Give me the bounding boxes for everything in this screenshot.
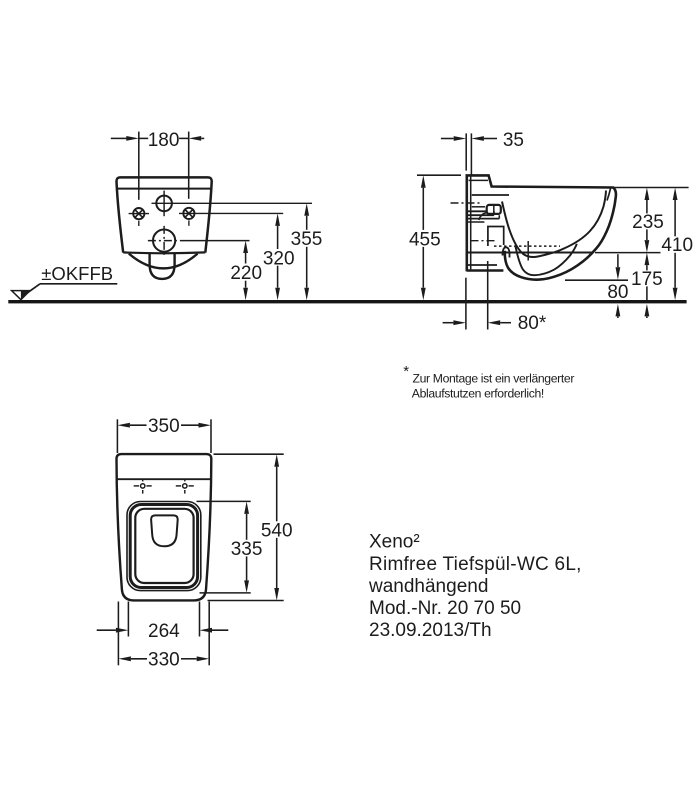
inlet axis dashdot bbox=[451, 202, 482, 204]
interior bottom line bbox=[468, 264, 498, 266]
OKFFB diagonal bbox=[22, 284, 40, 297]
outlet axis dashdot bbox=[471, 240, 498, 242]
inlet hole bbox=[156, 196, 172, 212]
dim 80 below-floor arrow bbox=[616, 304, 621, 317]
dim 264 line bbox=[97, 629, 116, 631]
dim 350 extension left bbox=[116, 419, 118, 453]
dim 355 vertical bbox=[304, 203, 309, 216]
dim 350 line bbox=[117, 423, 129, 428]
svg-text:264: 264 bbox=[148, 621, 180, 642]
dim 264 extension right bbox=[199, 602, 201, 637]
bowl skirt arc bbox=[129, 254, 198, 269]
dim 330 line bbox=[118, 656, 130, 661]
svg-text:23.09.2013/Th: 23.09.2013/Th bbox=[369, 620, 492, 641]
plan band line bbox=[117, 478, 211, 480]
plan body outline bbox=[117, 454, 212, 600]
seat inner thick outline bbox=[130, 505, 197, 588]
svg-text:80: 80 bbox=[607, 282, 628, 303]
dim 455 top extension bbox=[417, 174, 461, 176]
outlet pipe U front bbox=[150, 253, 175, 279]
dim 175 below-floor arrow bbox=[645, 304, 650, 317]
front body bottom edge bbox=[123, 251, 205, 254]
inlet crosshair vertical bbox=[163, 191, 165, 217]
svg-text:410: 410 bbox=[661, 235, 693, 256]
dim 320 vertical bbox=[275, 213, 280, 226]
dim 410 vertical bbox=[673, 188, 678, 201]
leader from right fixing hole bbox=[179, 212, 283, 214]
svg-text:Xeno²: Xeno² bbox=[369, 532, 420, 553]
dim 35 line bbox=[441, 138, 454, 140]
dim 80* wall extension bbox=[465, 278, 467, 330]
dim 455 vertical bbox=[421, 175, 426, 188]
floor line bbox=[8, 300, 686, 303]
dim 235 bottom extension bbox=[595, 252, 661, 254]
dim 175 vertical bbox=[645, 253, 650, 266]
dim 180 extension line left bbox=[138, 132, 140, 200]
PLAN VIEW bbox=[97, 416, 293, 671]
svg-text:wandhängend: wandhängend bbox=[368, 576, 488, 597]
dim 330 extension left bbox=[117, 602, 119, 666]
rim inner lip bbox=[607, 189, 611, 201]
svg-text:Mod.-Nr. 20 70 50: Mod.-Nr. 20 70 50 bbox=[369, 598, 521, 619]
svg-text:180: 180 bbox=[148, 130, 180, 151]
SIDE VIEW bbox=[409, 130, 693, 334]
rim shelf line 1 bbox=[472, 194, 509, 196]
svg-text:320: 320 bbox=[263, 248, 295, 269]
dim 330 extension right bbox=[208, 602, 210, 666]
plan fixing mark left bbox=[134, 485, 139, 487]
dim 264 extension left bbox=[127, 602, 129, 637]
svg-text:330: 330 bbox=[148, 649, 180, 670]
dim 350 extension right bbox=[210, 419, 212, 453]
fixing tube lines bbox=[468, 210, 488, 212]
OKFFB underline bbox=[40, 283, 117, 285]
svg-text:35: 35 bbox=[503, 130, 524, 151]
toilet front body outline bbox=[116, 177, 211, 252]
top edge extension right bbox=[614, 187, 689, 189]
side fixing hole left bbox=[133, 208, 144, 219]
svg-text:455: 455 bbox=[409, 229, 441, 250]
leader from inlet hole bbox=[152, 202, 313, 204]
top step inner line bbox=[469, 179, 488, 181]
dim 180 extension line right bbox=[188, 132, 190, 199]
dim 35 wall line bbox=[465, 133, 467, 170]
side body bottom edge bbox=[467, 269, 504, 272]
svg-text:Rimfree Tiefspül-WC 6L,: Rimfree Tiefspül-WC 6L, bbox=[369, 554, 582, 575]
svg-text:235: 235 bbox=[632, 212, 664, 233]
dim 220 vertical bbox=[243, 241, 248, 254]
dim 235 vertical bbox=[645, 188, 650, 201]
front body band line bbox=[117, 188, 212, 190]
svg-text:80*: 80* bbox=[518, 313, 547, 334]
sump outline bbox=[151, 515, 178, 546]
trap weir bbox=[503, 247, 510, 257]
dim 540 top extension bbox=[214, 453, 284, 455]
outlet channel vertical bbox=[527, 241, 529, 261]
dim 80 upper arrow bbox=[617, 254, 619, 267]
trap inner tube curve bbox=[516, 244, 577, 275]
FRONT VIEW bbox=[8, 130, 686, 303]
dim 335 top leader bbox=[197, 500, 251, 502]
svg-text:Zur Montage ist ein verlängert: Zur Montage ist ein verlängerter bbox=[413, 372, 575, 386]
svg-text:350: 350 bbox=[148, 416, 180, 437]
dim 80* line bbox=[443, 322, 454, 324]
interior shelf line bbox=[467, 252, 594, 254]
spud bend bbox=[479, 213, 487, 221]
hidden outlet line dotted bbox=[494, 245, 560, 247]
outlet hole front bbox=[153, 230, 175, 252]
toilet side profile outline bbox=[467, 175, 616, 279]
dim 335 vertical bbox=[244, 501, 249, 514]
inlet spud bbox=[487, 205, 501, 214]
plan fixing mark right bbox=[176, 485, 181, 487]
svg-text:*: * bbox=[403, 363, 409, 380]
svg-text:Ablaufstutzen erforderlich!: Ablaufstutzen erforderlich! bbox=[412, 387, 544, 401]
level triangle symbol bbox=[12, 291, 30, 300]
rim shelf line 2 bbox=[472, 206, 485, 208]
outlet stub bbox=[488, 227, 504, 247]
dim 35 second line bbox=[470, 133, 472, 176]
mounting face inner line bbox=[470, 176, 472, 269]
seat outer outline bbox=[127, 502, 201, 591]
bowl rim outline bbox=[135, 509, 193, 583]
mounting ledge line bbox=[468, 221, 485, 223]
TEXT BLOCKS bbox=[368, 363, 582, 641]
dim 540 vertical bbox=[274, 454, 279, 467]
dim 180 line bbox=[111, 137, 127, 139]
outlet crosshair dashdot bbox=[148, 240, 180, 242]
trap bottom extension bbox=[565, 279, 628, 281]
dim 335 bottom leader bbox=[200, 592, 251, 594]
leader from outlet hole bbox=[180, 240, 250, 242]
bowl interior curve bbox=[502, 191, 606, 257]
svg-text:±OKFFB: ±OKFFB bbox=[41, 263, 113, 284]
dim 540 bottom extension bbox=[208, 600, 284, 602]
outlet centre extension bbox=[487, 261, 489, 330]
side fixing hole right bbox=[183, 208, 194, 219]
